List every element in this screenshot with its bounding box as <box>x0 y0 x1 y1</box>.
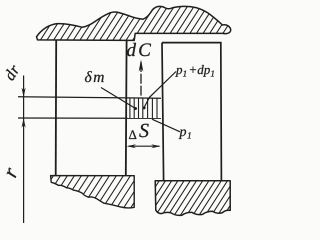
label delta <box>129 130 136 139</box>
p1+dp1 leader line <box>144 72 176 108</box>
lower-right wall (hatched block) <box>155 181 230 216</box>
radial dimension line (dr / r) <box>23 76 25 224</box>
right cylinder wall outline <box>162 43 221 181</box>
p1 leader line <box>152 119 180 132</box>
left cylinder wall left edge <box>55 40 58 176</box>
label dC <box>127 43 151 56</box>
label r (rotated) <box>6 167 18 178</box>
upper wall hatching <box>24 2 256 45</box>
label delta-m <box>85 71 104 82</box>
label p1 <box>179 129 191 139</box>
fluid element vertical hatching <box>130 98 157 118</box>
label dr (rotated) <box>3 63 20 81</box>
delta-m leader line <box>101 88 135 109</box>
label p1+dp1 <box>175 65 214 77</box>
lower-left wall hatching <box>30 172 154 212</box>
label S <box>139 124 148 137</box>
dC arrow <box>140 62 142 98</box>
r arrowhead (up) <box>22 118 26 128</box>
element bottom edge / r extension line <box>18 117 161 119</box>
element top edge / dr extension line <box>18 97 161 99</box>
dr arrowhead (down) <box>22 88 26 98</box>
lower-right wall hatching <box>134 177 255 220</box>
upper cylinder wall (broken hatched section) <box>37 6 231 40</box>
left cylinder wall right edge <box>125 40 128 176</box>
lower-left wall (broken hatched block) <box>51 176 135 208</box>
delta-S dimension arrow <box>129 145 160 147</box>
